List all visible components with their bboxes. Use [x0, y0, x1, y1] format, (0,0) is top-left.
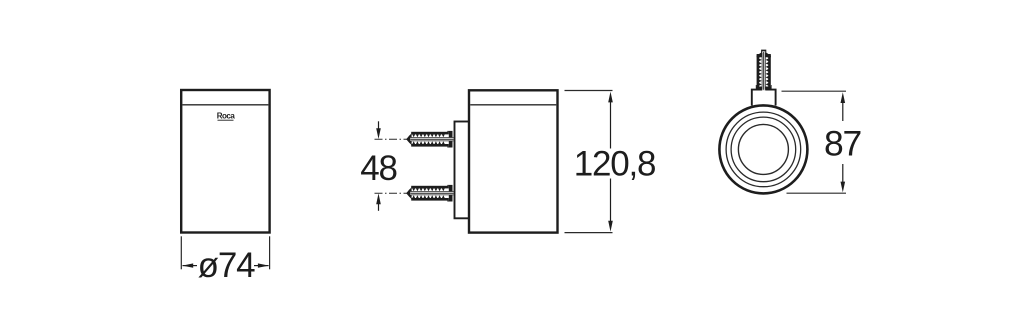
dim o74 line right + arrow	[254, 263, 269, 267]
dim 120,8 line bottom + arrow	[608, 179, 613, 232]
svg-text:ø74: ø74	[198, 246, 255, 285]
dim o74 extension line right	[269, 236, 271, 269]
stud top (threaded, side view)	[406, 131, 453, 148]
dim 48 top arrow	[376, 121, 381, 139]
Roca logo	[217, 112, 236, 121]
dim o74 extension line left	[180, 236, 182, 269]
body circle ring 3	[731, 117, 796, 182]
svg-text:48: 48	[360, 149, 397, 188]
mounting plate (top view)	[752, 90, 776, 106]
body rim line	[182, 104, 268, 106]
mounting plate (side)	[455, 122, 470, 219]
stud bottom centerline	[375, 192, 409, 194]
svg-text:Roca: Roca	[217, 112, 236, 121]
stud top centerline	[375, 138, 409, 140]
stud bottom (threaded, side view)	[406, 185, 453, 202]
svg-text:120,8: 120,8	[574, 144, 656, 183]
body rim line (side)	[470, 104, 556, 106]
stud (top view, vertical)	[756, 50, 772, 91]
dim 120,8 extension line top	[565, 90, 613, 92]
dim 87 extension line top	[782, 90, 847, 92]
body circle ring 2	[726, 112, 801, 187]
svg-text:87: 87	[824, 124, 861, 164]
dim 120,8 extension line bottom	[565, 232, 613, 234]
dim 48 bottom arrow	[376, 193, 381, 210]
dim 120,8 line top + arrow	[608, 92, 613, 149]
dim 87 extension line bottom	[787, 192, 847, 194]
dim o74 line left + arrow	[182, 263, 197, 267]
body circle inner	[738, 124, 788, 174]
body side view	[469, 90, 558, 232]
body front view	[181, 90, 269, 233]
dim 87 line top + arrow	[841, 92, 846, 121]
body circle outer	[719, 105, 807, 193]
dim 87 line bottom + arrow	[841, 164, 846, 192]
